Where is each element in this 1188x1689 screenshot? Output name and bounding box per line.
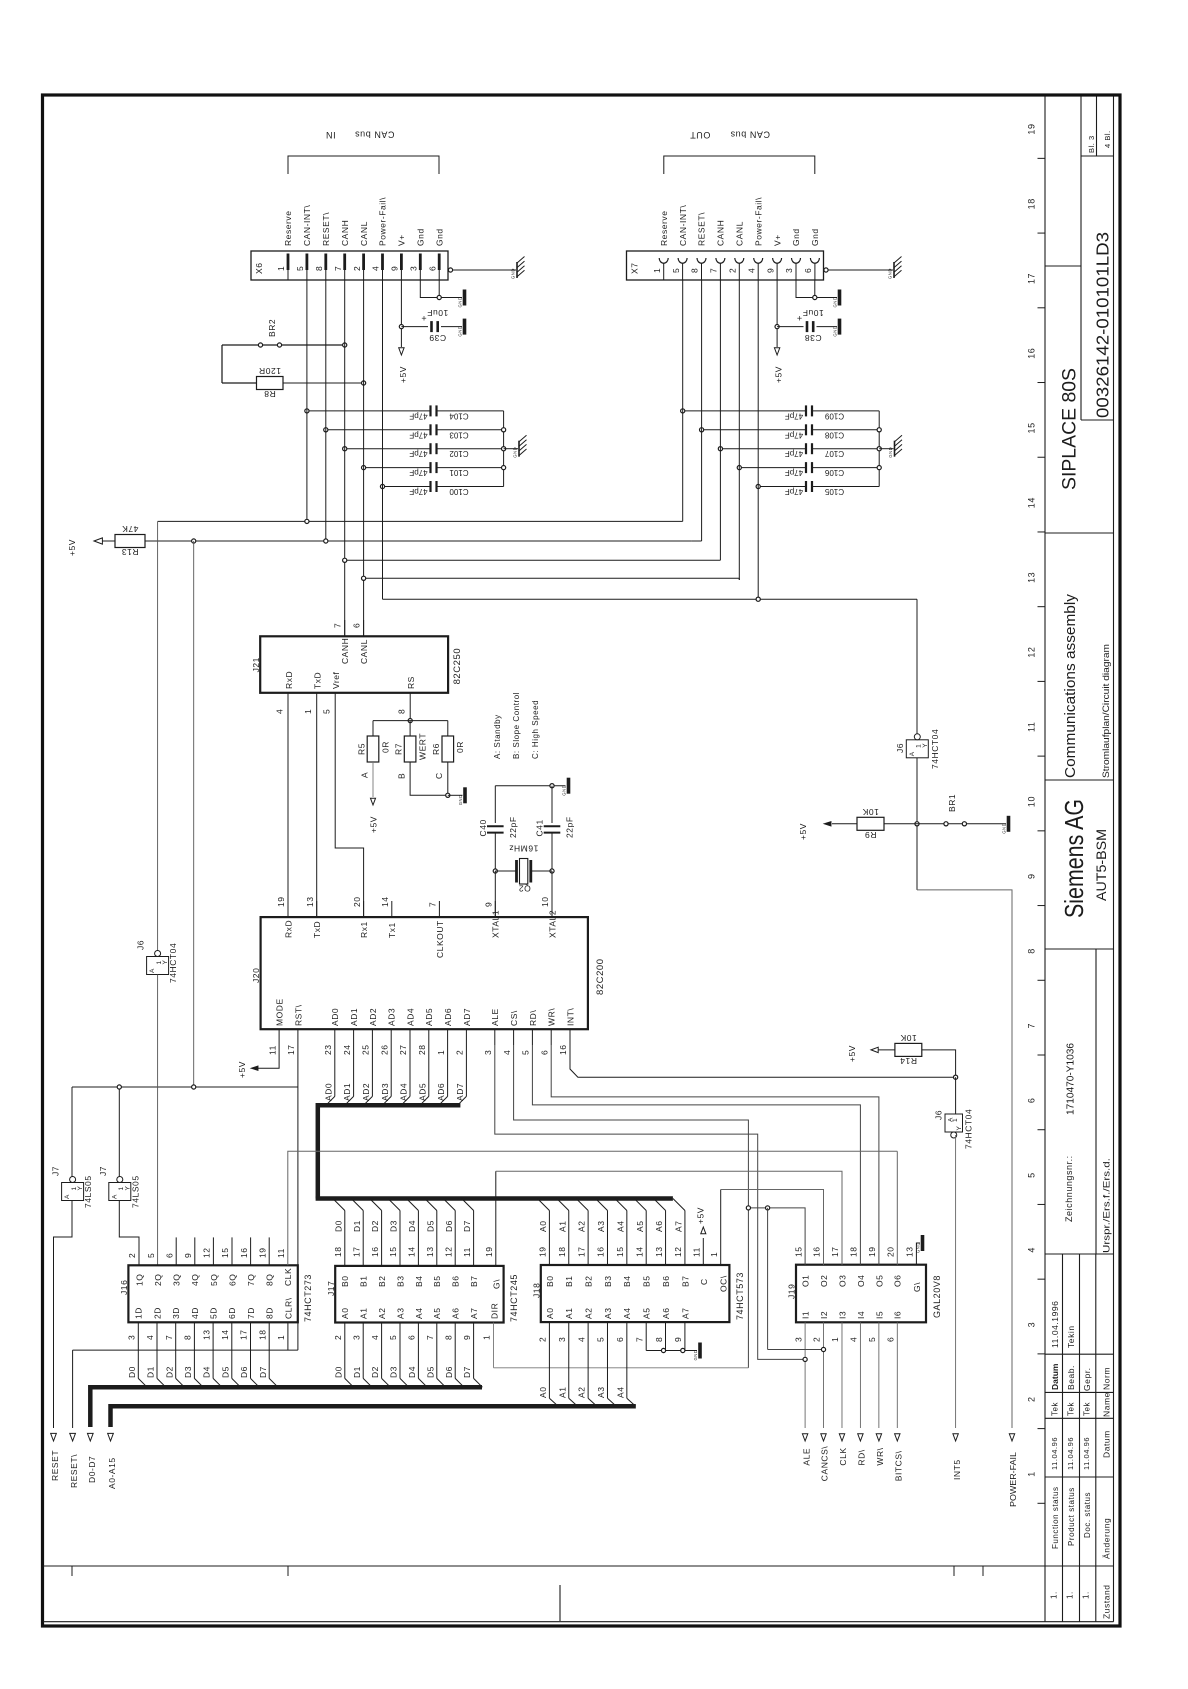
arrow D0-D7 [87, 1433, 93, 1441]
svg-text:25: 25 [361, 1044, 371, 1055]
svg-text:8: 8 [183, 1335, 193, 1340]
capacitor C39 10uF on X6 V+ [400, 280, 402, 347]
svg-text:8D: 8D [265, 1307, 275, 1319]
J20 pin 6 WR\ [550, 1029, 552, 1045]
svg-text:J21: J21 [251, 657, 261, 672]
J20 pin 27 AD4 [409, 1029, 411, 1045]
svg-text:Tekin: Tekin [1066, 1325, 1076, 1348]
jumper BR1 [917, 823, 1006, 825]
bus tap A3 (J18 B side) [595, 1199, 607, 1211]
+5V arrow for R14 [871, 1047, 878, 1052]
capacitor C101 47pF [364, 467, 431, 469]
svg-text:47pF: 47pF [409, 411, 427, 420]
J17 pin 4 A2 [381, 1323, 383, 1379]
svg-text:A6: A6 [654, 1221, 664, 1233]
svg-text:D5: D5 [425, 1366, 435, 1378]
+5V arrow on X6 V+ pin 9 [399, 348, 404, 355]
net RESET\ to CLR/RST [73, 1349, 298, 1351]
svg-text:OC\: OC\ [719, 1275, 729, 1292]
svg-text:Y: Y [922, 743, 929, 748]
J17 pin 18 B0 [344, 1211, 346, 1266]
svg-text:R6: R6 [431, 743, 441, 755]
svg-text:5D: 5D [209, 1307, 219, 1319]
svg-text:WERT: WERT [417, 733, 427, 760]
signal arrow RD\ [858, 1434, 863, 1441]
svg-text:D3: D3 [389, 1220, 399, 1232]
svg-text:A4: A4 [622, 1308, 632, 1320]
svg-text:J6: J6 [135, 940, 145, 950]
svg-text:AD6: AD6 [443, 1008, 453, 1026]
svg-text:D0: D0 [127, 1366, 137, 1378]
J6 input wire from J16 2Q [157, 975, 159, 1266]
svg-text:I2: I2 [819, 1311, 829, 1319]
svg-text:4: 4 [502, 1050, 512, 1055]
svg-text:O1: O1 [801, 1275, 811, 1287]
svg-text:J6: J6 [895, 743, 905, 753]
svg-text:RD\: RD\ [528, 1010, 538, 1026]
J17 pin 19 G\ [495, 1171, 497, 1266]
svg-text:1: 1 [709, 1252, 719, 1257]
svg-text:CLK: CLK [283, 1268, 293, 1286]
svg-text:CANCS\: CANCS\ [820, 1446, 830, 1482]
svg-text:7: 7 [333, 623, 343, 628]
svg-text:15: 15 [615, 1246, 625, 1257]
svg-text:4: 4 [746, 268, 756, 273]
svg-text:10K: 10K [900, 1033, 917, 1043]
net CAN-INT horizontal run y=521.4 [158, 520, 683, 522]
J20 pin 19 RxD [287, 901, 289, 917]
svg-text:GND: GND [888, 447, 893, 458]
svg-text:22pF: 22pF [565, 816, 575, 838]
svg-text:Q2: Q2 [518, 884, 530, 894]
svg-text:AD0: AD0 [330, 1008, 340, 1026]
arrow RESET\ [70, 1433, 76, 1441]
svg-text:B6: B6 [661, 1276, 671, 1288]
svg-text:AD7: AD7 [462, 1008, 472, 1026]
svg-text:14: 14 [634, 1246, 644, 1257]
svg-text:B7: B7 [469, 1276, 479, 1288]
svg-text:D3: D3 [183, 1366, 193, 1378]
svg-text:17: 17 [576, 1246, 586, 1257]
chassis ground GND (cap bank) [894, 441, 896, 457]
J18 pin 17 B2 [587, 1211, 589, 1266]
svg-text:Tek: Tek [1083, 1401, 1092, 1416]
svg-text:15: 15 [1027, 422, 1037, 433]
bus tap D5 (J17 B side) [425, 1199, 437, 1211]
svg-text:RD\: RD\ [857, 1449, 867, 1465]
svg-text:ALE: ALE [490, 1008, 500, 1026]
bus tap A5 (J18 B side) [634, 1199, 646, 1211]
svg-text:15: 15 [220, 1247, 230, 1258]
J17 pin 2 A0 [344, 1323, 346, 1379]
data bus D0-D7 thick line [90, 1385, 482, 1390]
svg-text:J17: J17 [326, 1281, 336, 1296]
J17 pin 3 A1 [362, 1323, 364, 1379]
svg-text:AD3: AD3 [380, 1083, 390, 1101]
wire X7 pin5 CAN-INT down [682, 280, 684, 521]
J20 pin 4 CS\ [513, 1029, 515, 1045]
bus tap D7 (J17 B side) [462, 1199, 474, 1211]
svg-text:17: 17 [830, 1246, 840, 1257]
J18 pin 15 B4 [626, 1211, 628, 1266]
revision table grid [1062, 1254, 1064, 1622]
X7 pin 2 CANL [735, 258, 744, 263]
svg-text:19: 19 [257, 1247, 267, 1258]
bus tap AD6 [447, 1045, 449, 1096]
svg-text:13: 13 [654, 1246, 664, 1257]
net ALE from 82C200 to GAL I1 [495, 1045, 805, 1359]
svg-text:CANH: CANH [716, 220, 726, 246]
svg-text:GND: GND [512, 447, 517, 458]
svg-text:8: 8 [1027, 948, 1037, 954]
J20 pin 9 XTAL1 [494, 901, 496, 917]
svg-text:6: 6 [615, 1337, 625, 1342]
svg-text:8: 8 [690, 268, 700, 273]
svg-text:D1: D1 [352, 1366, 362, 1378]
svg-text:A4: A4 [615, 1387, 625, 1399]
RST wire down to reset net [297, 1045, 299, 1350]
ground bar (RS options) [463, 787, 467, 803]
gnd rail for C40/C41 [495, 785, 565, 787]
svg-text:5: 5 [388, 1335, 398, 1340]
svg-text:7: 7 [1027, 1023, 1037, 1029]
svg-text:B4: B4 [414, 1276, 424, 1288]
svg-text:11: 11 [267, 1045, 277, 1055]
X6 pin 4 Power-Fail\ [381, 254, 384, 271]
DIR control wire [494, 1367, 749, 1369]
bus tap D6 (J17 B side) [443, 1199, 455, 1211]
svg-text:11.04.96: 11.04.96 [1066, 1437, 1075, 1470]
svg-text:A: Standby: A: Standby [493, 714, 502, 759]
svg-text:3: 3 [127, 1335, 137, 1340]
svg-text:A3: A3 [395, 1308, 405, 1320]
svg-text:5Q: 5Q [209, 1274, 219, 1286]
svg-text:A6: A6 [661, 1308, 671, 1320]
J20 pin 1 AD6 [447, 1029, 449, 1045]
ground bar (X6 Gnd pins) [463, 290, 467, 306]
svg-text:GAL20V8: GAL20V8 [932, 1275, 942, 1318]
svg-text:B4: B4 [622, 1276, 632, 1288]
svg-text:DIR: DIR [489, 1303, 499, 1319]
ground bar (C39) [463, 319, 467, 335]
svg-text:MODE: MODE [275, 998, 285, 1026]
J19 pin 4 I4 [859, 1322, 861, 1428]
J17 pin 16 B2 [381, 1211, 383, 1266]
svg-text:D7: D7 [462, 1220, 472, 1232]
svg-text:I3: I3 [837, 1311, 847, 1319]
net CANH horizontal run y=560.3 [345, 559, 721, 561]
centre fold mark below frame [559, 1585, 561, 1621]
svg-text:19: 19 [867, 1246, 877, 1257]
svg-text:B1: B1 [359, 1276, 369, 1288]
svg-text:O3: O3 [837, 1275, 847, 1287]
J16 pin 19 8Q [268, 1237, 270, 1265]
svg-text:B0: B0 [340, 1276, 350, 1288]
svg-text:B0: B0 [545, 1276, 555, 1288]
bus tap AD1 [353, 1045, 355, 1096]
svg-text:G\: G\ [492, 1279, 502, 1289]
svg-text:Datum: Datum [1050, 1363, 1060, 1390]
svg-text:47pF: 47pF [785, 449, 803, 458]
svg-text:18: 18 [257, 1329, 267, 1340]
svg-text:23: 23 [323, 1044, 333, 1055]
J16 pin 8 4D [193, 1322, 195, 1378]
cap bank right bus [878, 411, 880, 487]
svg-text:A1: A1 [557, 1387, 567, 1399]
wire BR2 to R8 [221, 345, 223, 383]
svg-text:Urspr./Ers.f./Ers.d.: Urspr./Ers.f./Ers.d. [1102, 1158, 1113, 1253]
J21 pin 1 TxD [316, 693, 318, 917]
sheet bottom thin line [43, 1621, 1114, 1623]
svg-text:4: 4 [145, 1335, 155, 1340]
bus AD thick vertical [316, 1103, 321, 1199]
svg-text:C41: C41 [535, 819, 545, 836]
wire to chassis ground [504, 448, 518, 450]
svg-text:74HCT04: 74HCT04 [964, 1109, 974, 1149]
J17 pin 9 A7 [473, 1323, 475, 1379]
wire to chassis ground [879, 448, 893, 450]
inner frame bottom line [43, 1565, 1045, 1567]
svg-text:A1: A1 [557, 1221, 567, 1233]
svg-text:1: 1 [482, 1335, 492, 1340]
svg-text:2: 2 [1027, 1396, 1037, 1402]
svg-text:CAN-INT\: CAN-INT\ [302, 205, 312, 246]
svg-text:Tek: Tek [1067, 1401, 1076, 1416]
+5V arrow for R13 [94, 538, 102, 544]
svg-text:ALE: ALE [801, 1448, 811, 1466]
svg-text:27: 27 [398, 1044, 408, 1055]
svg-text:3D: 3D [171, 1307, 181, 1319]
svg-text:A3: A3 [596, 1221, 606, 1233]
svg-text:17: 17 [351, 1246, 361, 1257]
svg-text:7: 7 [164, 1335, 174, 1340]
svg-text:C: C [699, 1278, 709, 1285]
J17 pin 11 B7 [473, 1211, 475, 1266]
svg-text:A3: A3 [596, 1387, 606, 1399]
svg-text:3Q: 3Q [172, 1274, 182, 1286]
svg-text:+5V: +5V [237, 1061, 247, 1078]
svg-text:4D: 4D [190, 1307, 200, 1319]
svg-text:O6: O6 [893, 1275, 903, 1287]
title block boxes [1045, 265, 1081, 267]
svg-text:AUT5-BSM: AUT5-BSM [1094, 829, 1109, 901]
svg-text:A2: A2 [577, 1387, 587, 1399]
J17 pin 1 DIR [493, 1323, 495, 1368]
net Power-Fail horizontal run y=599.2 [383, 598, 918, 600]
svg-text:R13: R13 [121, 547, 138, 557]
svg-text:11: 11 [692, 1247, 702, 1257]
ground bar (J18 A5-A7) [698, 1343, 702, 1359]
svg-text:47K: 47K [122, 524, 139, 534]
svg-text:19: 19 [276, 896, 286, 907]
inverter J6 74HCT04 (Power-Fail driver) [916, 599, 918, 734]
svg-text:C40: C40 [478, 819, 488, 836]
svg-text:2: 2 [352, 266, 362, 271]
svg-text:BR1: BR1 [947, 794, 957, 812]
svg-text:7Q: 7Q [246, 1274, 256, 1286]
svg-text:74LS05: 74LS05 [83, 1175, 93, 1208]
J20 pin 26 AD3 [390, 1029, 392, 1045]
svg-text:I6: I6 [893, 1311, 903, 1319]
wire R13 to RESET net [145, 540, 692, 542]
svg-text:D5: D5 [220, 1366, 230, 1378]
J7 second input wire from J16 1Q [119, 1201, 139, 1266]
bus A left vertical [108, 1404, 113, 1427]
svg-text:4: 4 [370, 1335, 380, 1340]
svg-text:1: 1 [276, 266, 286, 271]
svg-text:10: 10 [1027, 796, 1037, 807]
X6 pin 5 CAN-INT\ [305, 254, 308, 271]
svg-text:2: 2 [455, 1050, 465, 1055]
svg-text:13: 13 [425, 1246, 435, 1257]
J17 pin 15 B3 [399, 1211, 401, 1266]
svg-text:16: 16 [239, 1247, 249, 1258]
svg-text:D1: D1 [352, 1220, 362, 1232]
svg-text:Gnd: Gnd [810, 228, 820, 246]
svg-text:POWER-FAIL: POWER-FAIL [1008, 1452, 1018, 1507]
svg-text:9: 9 [673, 1337, 683, 1342]
svg-text:I5: I5 [874, 1311, 884, 1319]
J7 first input wire from RESET [54, 1201, 73, 1429]
arrow RESET [51, 1433, 57, 1441]
svg-text:AD7: AD7 [455, 1083, 465, 1101]
svg-text:Norm: Norm [1102, 1367, 1112, 1390]
svg-text:6: 6 [164, 1253, 174, 1258]
svg-text:X7: X7 [630, 263, 640, 275]
svg-text:+: + [421, 313, 426, 323]
svg-text:10K: 10K [862, 807, 879, 817]
svg-text:1: 1 [436, 1050, 446, 1055]
svg-text:Product status: Product status [1067, 1487, 1076, 1546]
svg-text:A0: A0 [340, 1308, 350, 1320]
svg-text:11: 11 [1027, 722, 1037, 732]
svg-text:15: 15 [388, 1246, 398, 1257]
svg-text:C109: C109 [824, 411, 844, 420]
svg-text:A7: A7 [674, 1221, 684, 1233]
+5V arrow on X7 V+ pin 9 [774, 348, 779, 355]
svg-text:D6: D6 [444, 1220, 454, 1232]
resistor R5 0R [372, 721, 374, 736]
svg-text:7: 7 [709, 268, 719, 273]
svg-text:A5: A5 [432, 1308, 442, 1320]
J16 pin 7 3D [175, 1322, 177, 1378]
J17 pin 5 A3 [399, 1323, 401, 1379]
svg-text:47pF: 47pF [785, 468, 803, 477]
J16 pin 3 1D [137, 1322, 139, 1378]
IC J17 74HCT245 transceiver [335, 1266, 503, 1323]
J19 pin 1 I3 [841, 1322, 843, 1428]
svg-text:I4: I4 [856, 1311, 866, 1319]
svg-text:9: 9 [462, 1335, 472, 1340]
J17 pin 12 B6 [454, 1211, 456, 1266]
bus tap D0 (J17 B side) [333, 1199, 345, 1211]
svg-text:10: 10 [540, 896, 550, 907]
svg-text:Rx1: Rx1 [359, 921, 369, 938]
svg-text:9: 9 [765, 268, 775, 273]
bus tap AD7 [465, 1045, 467, 1096]
X6 pin 9 V+ [400, 254, 403, 271]
svg-text:+5V: +5V [774, 366, 784, 383]
svg-text:6: 6 [539, 1050, 549, 1055]
X7 pin 7 CANH [716, 258, 725, 263]
svg-text:A0: A0 [538, 1221, 548, 1233]
svg-text:A5: A5 [642, 1308, 652, 1320]
fold tick marks on bottom frame line [71, 1566, 73, 1576]
signal arrow WR\ [876, 1434, 881, 1441]
svg-text:6Q: 6Q [227, 1274, 237, 1286]
svg-text:GND: GND [832, 326, 837, 337]
J16 pin 13 5D [212, 1322, 214, 1378]
svg-text:V+: V+ [772, 234, 782, 246]
svg-text:1D: 1D [134, 1307, 144, 1319]
svg-text:A7: A7 [469, 1308, 479, 1320]
svg-text:D6: D6 [239, 1366, 249, 1378]
svg-text:Function status: Function status [1051, 1487, 1060, 1550]
svg-text:B5: B5 [642, 1276, 652, 1288]
svg-text:3: 3 [557, 1337, 567, 1342]
svg-text:J18: J18 [532, 1283, 542, 1298]
svg-text:CLR\: CLR\ [283, 1297, 293, 1319]
svg-text:Zustand: Zustand [1102, 1584, 1112, 1619]
net G\ J17 to GAL O3 [496, 1171, 842, 1265]
J20 pin 14 Tx1 [391, 901, 393, 917]
svg-text:74HCT273: 74HCT273 [303, 1274, 313, 1322]
resistor R7 WERT [409, 721, 411, 736]
svg-text:B2: B2 [584, 1276, 594, 1288]
svg-text:Stromlaufplan/Circuit diagram: Stromlaufplan/Circuit diagram [1101, 644, 1112, 778]
svg-text:12: 12 [673, 1246, 683, 1257]
svg-text:4: 4 [371, 266, 381, 271]
bus tap A7 (J18 B side) [673, 1199, 685, 1211]
svg-text:C38: C38 [804, 333, 821, 343]
crystal Q2 16MHz [493, 869, 497, 873]
svg-text:A4: A4 [615, 1221, 625, 1233]
J18 A5-A7 to ground [645, 1322, 647, 1350]
svg-text:A: A [111, 1194, 118, 1199]
svg-text:11: 11 [276, 1248, 286, 1258]
svg-text:A: A [149, 968, 156, 973]
bus tap A4 (J18 B side) [615, 1199, 627, 1211]
bus tap AD5 [428, 1045, 430, 1096]
jumper BR2 [222, 344, 343, 346]
svg-text:J7: J7 [50, 1166, 60, 1176]
svg-text:5: 5 [867, 1337, 877, 1342]
svg-text:J7: J7 [98, 1166, 108, 1176]
wire X6 pin8 RESET to bank and RESET line [325, 280, 327, 541]
connector X6 [251, 251, 448, 280]
svg-text:A1: A1 [564, 1308, 574, 1320]
svg-text:CAN bus: CAN bus [355, 130, 395, 140]
svg-text:G\: G\ [912, 1282, 922, 1292]
inverter J7 74LS05 (second) [118, 1087, 120, 1180]
svg-text:D6: D6 [444, 1366, 454, 1378]
wire PF node to POWER-FAIL arrow [917, 890, 1012, 1428]
svg-text:17: 17 [1027, 273, 1037, 284]
svg-text:R5: R5 [357, 743, 367, 755]
svg-text:A: A [64, 1194, 71, 1199]
svg-text:SIPLACE 80S: SIPLACE 80S [1060, 368, 1081, 490]
svg-text:AD4: AD4 [405, 1008, 415, 1026]
net CLK from J16 CLK to GAL O6 [288, 1151, 898, 1265]
svg-text:J20: J20 [251, 968, 261, 983]
CAN bus OUT bracket [664, 156, 815, 174]
svg-text:4: 4 [1027, 1247, 1037, 1253]
svg-text:8Q: 8Q [265, 1274, 275, 1286]
svg-text:C108: C108 [824, 430, 844, 439]
svg-text:B: Slope Control: B: Slope Control [512, 692, 521, 759]
bus AD thick segment lower [316, 1196, 673, 1201]
J16 pin 6 3Q [175, 1237, 177, 1265]
